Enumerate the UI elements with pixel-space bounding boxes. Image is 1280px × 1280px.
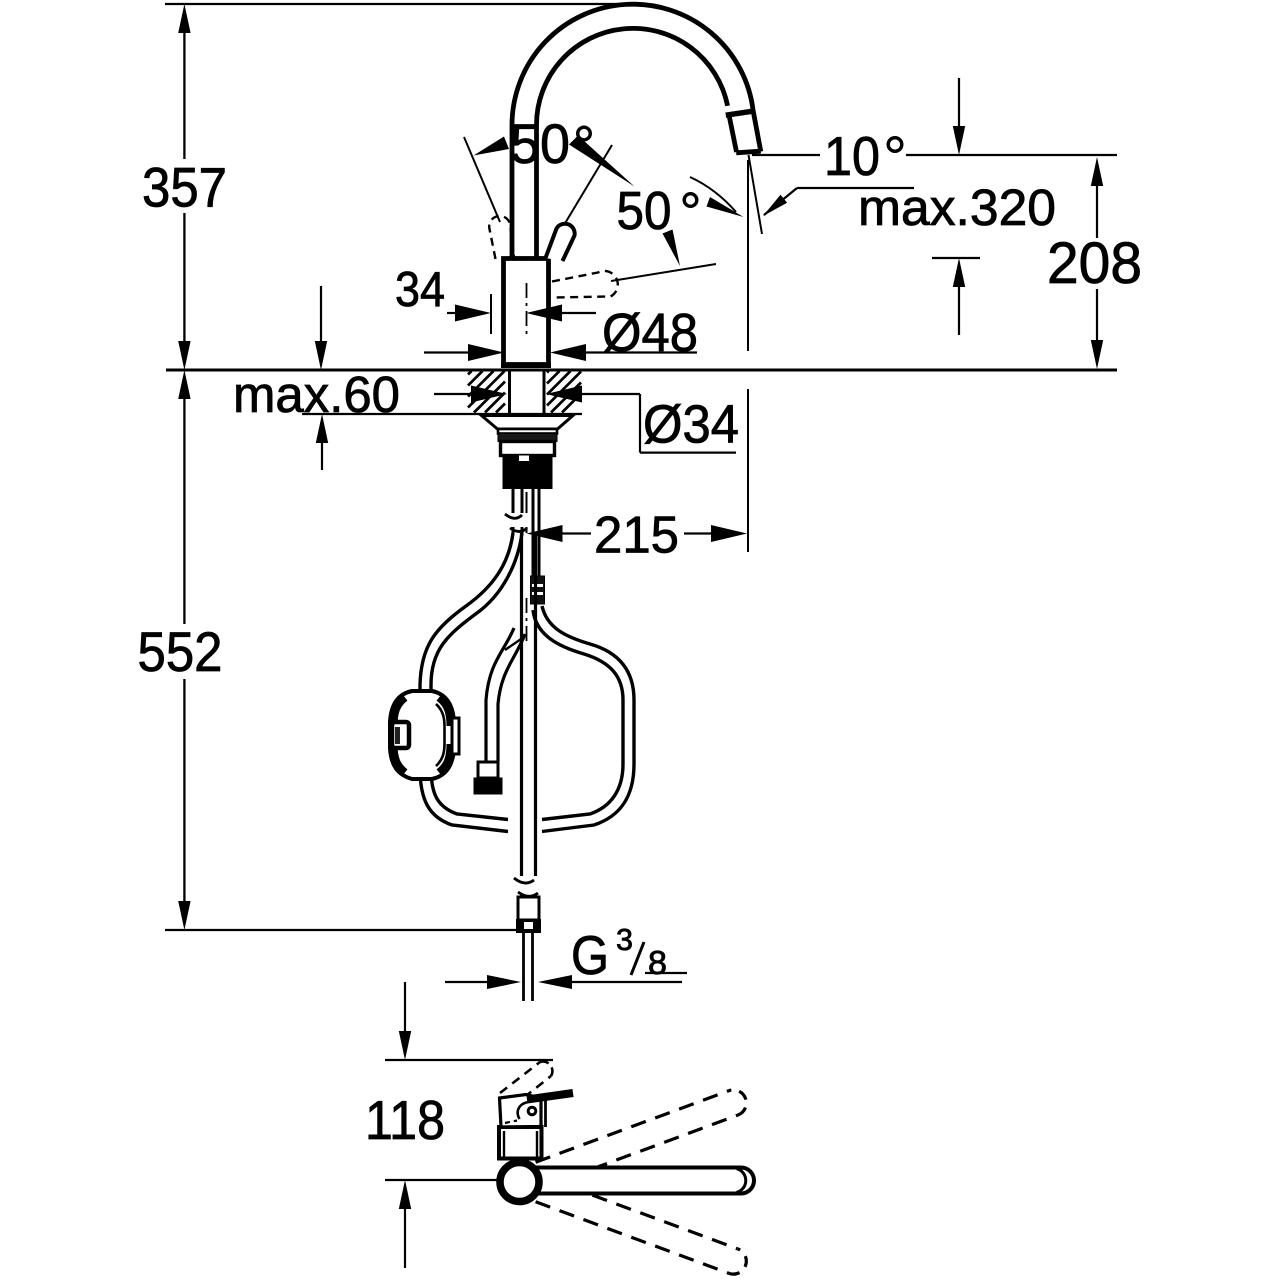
- svg-text:118: 118: [365, 1089, 445, 1151]
- svg-text:552: 552: [138, 620, 223, 683]
- svg-text:215: 215: [594, 507, 679, 565]
- svg-text:10: 10: [824, 125, 880, 187]
- svg-text:Ø48: Ø48: [602, 303, 698, 363]
- svg-text:max.60: max.60: [233, 366, 400, 423]
- svg-text:34: 34: [395, 263, 445, 317]
- svg-text:208: 208: [1047, 231, 1142, 296]
- svg-text:8: 8: [648, 944, 667, 981]
- svg-text:357: 357: [142, 156, 227, 219]
- svg-text:G: G: [571, 924, 609, 986]
- svg-text:50: 50: [510, 112, 570, 175]
- svg-text:50: 50: [617, 181, 672, 241]
- svg-text:max.320: max.320: [858, 179, 1056, 236]
- svg-text:3: 3: [616, 922, 633, 957]
- svg-text:Ø34: Ø34: [643, 395, 739, 455]
